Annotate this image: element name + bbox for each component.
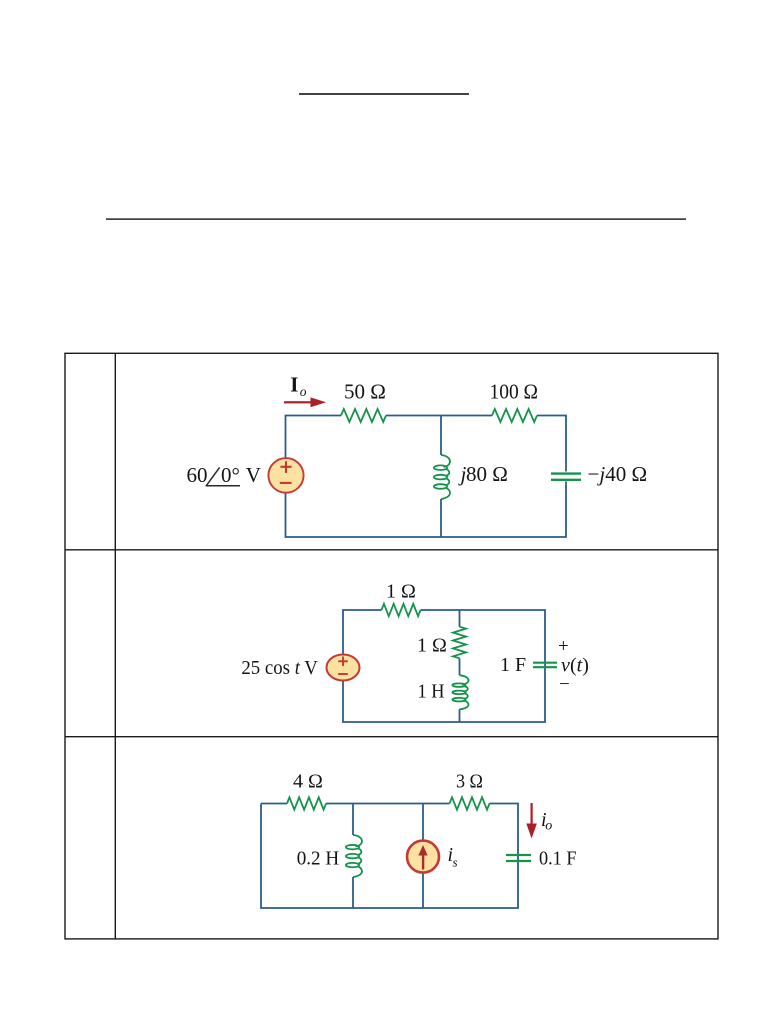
svg-text:−j40 Ω: −j40 Ω [588,462,648,486]
svg-text:0°: 0° [221,463,240,487]
svg-text:1 H: 1 H [418,681,445,703]
svg-text:25 cos t V: 25 cos t V [241,657,318,679]
svg-text:V: V [246,463,261,487]
svg-text:100 Ω: 100 Ω [490,380,539,404]
svg-text:I: I [290,373,298,397]
svg-text:1 Ω: 1 Ω [386,581,416,603]
svg-text:s: s [453,855,458,870]
svg-text:o: o [300,384,307,399]
svg-text:o: o [545,819,552,834]
svg-text:3 Ω: 3 Ω [456,771,483,793]
svg-text:50 Ω: 50 Ω [344,380,386,404]
svg-text:1 F: 1 F [500,654,526,676]
svg-text:0.1 F: 0.1 F [539,848,577,870]
svg-text:80 Ω: 80 Ω [466,462,508,486]
svg-text:1 Ω: 1 Ω [417,635,447,657]
svg-text:(t): (t) [570,655,589,677]
svg-text:4 Ω: 4 Ω [293,771,323,793]
svg-text:0.2 H: 0.2 H [297,847,340,869]
svg-text:60: 60 [187,463,208,487]
svg-text:−: − [559,674,570,695]
